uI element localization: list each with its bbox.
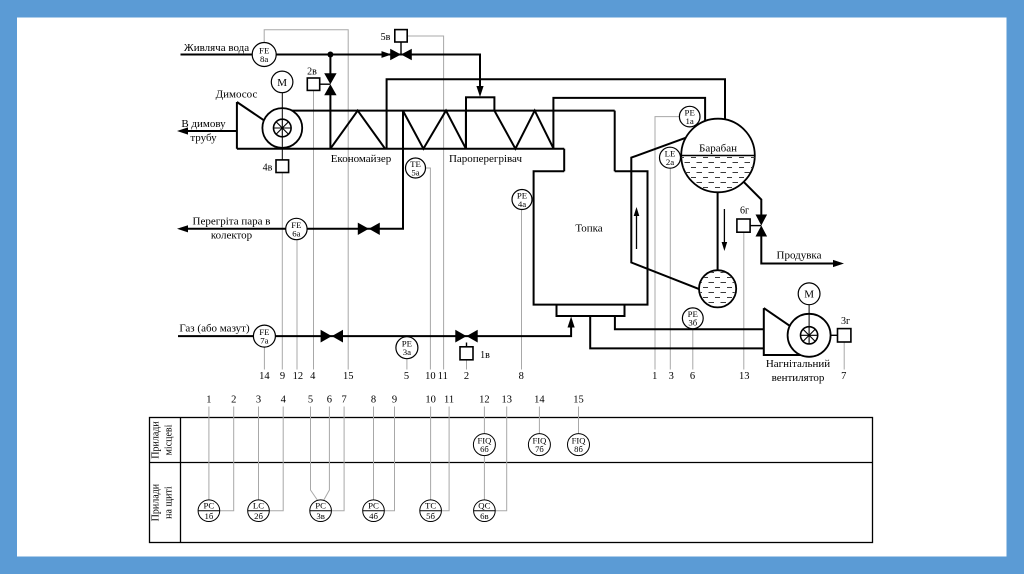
svg-text:13: 13 xyxy=(739,371,750,382)
square 2v xyxy=(307,78,319,90)
svg-text:В димову: В димову xyxy=(181,118,226,130)
svg-text:6: 6 xyxy=(690,371,695,382)
instrument LE 2a xyxy=(660,147,681,168)
svg-text:QC: QC xyxy=(478,501,490,511)
smoke exhauster housing xyxy=(181,102,265,149)
air duct lower xyxy=(590,316,764,348)
instrument FE 6a xyxy=(286,218,307,239)
svg-text:15: 15 xyxy=(573,395,584,406)
svg-text:3г: 3г xyxy=(841,316,850,327)
square 5v xyxy=(395,30,407,42)
table label panel instruments xyxy=(151,483,175,521)
burner box xyxy=(557,305,625,316)
svg-text:8: 8 xyxy=(371,395,376,406)
svg-text:10: 10 xyxy=(425,371,436,382)
square 4v xyxy=(276,160,289,173)
svg-text:Живляча вода: Живляча вода xyxy=(184,42,249,54)
fan motor shaft xyxy=(808,305,810,336)
svg-text:8а: 8а xyxy=(260,54,268,64)
instrument FE 7a xyxy=(253,325,275,347)
svg-text:1в: 1в xyxy=(480,350,490,361)
signal line FE8a to 15 xyxy=(264,30,348,370)
instrument FIQ 7b xyxy=(528,434,550,456)
node number row xyxy=(259,371,846,382)
svg-text:3б: 3б xyxy=(688,318,697,328)
table label local instruments xyxy=(151,421,175,459)
pipe blowdown upper xyxy=(744,182,761,214)
svg-text:1: 1 xyxy=(652,371,657,382)
signal line LE2a to 3 xyxy=(669,168,671,369)
drum water fill xyxy=(681,156,755,193)
superheater coil left xyxy=(403,111,466,149)
signal line 2v square to 4 xyxy=(313,91,315,370)
fan housing xyxy=(764,308,819,355)
instrument PE 3a xyxy=(396,337,418,359)
drum circle xyxy=(681,119,755,193)
motor shaft line xyxy=(281,93,283,160)
fan circle xyxy=(788,314,831,357)
svg-text:Пароперегрівач: Пароперегрівач xyxy=(449,153,523,165)
instrument TE 5a xyxy=(406,158,426,178)
signal line 5v square to 11 xyxy=(408,36,444,370)
svg-text:11: 11 xyxy=(438,371,448,382)
svg-text:4: 4 xyxy=(310,371,316,382)
square 1v xyxy=(460,347,473,360)
arrow to chimney xyxy=(177,127,188,134)
water wall with lower header xyxy=(631,138,699,290)
svg-text:4в: 4в xyxy=(263,162,273,173)
svg-text:2а: 2а xyxy=(666,157,674,167)
svg-text:2б: 2б xyxy=(254,511,263,521)
air duct upper xyxy=(615,316,764,329)
svg-text:5б: 5б xyxy=(426,511,435,521)
attemperator box xyxy=(466,97,494,110)
svg-text:4а: 4а xyxy=(518,199,526,209)
instrument PE 3b xyxy=(682,308,703,329)
pipe feed water branch lower xyxy=(329,95,331,149)
instrument FE 8a xyxy=(252,43,276,67)
signal line PE3b to 6 xyxy=(692,329,694,370)
square 6g xyxy=(737,219,750,232)
svg-text:8: 8 xyxy=(519,371,524,382)
svg-text:PC: PC xyxy=(204,501,215,511)
svg-text:Продувка: Продувка xyxy=(777,250,822,262)
signal line 6g square to 13 xyxy=(743,232,745,369)
pipe superheater outlet xyxy=(181,111,403,229)
motor M of fan xyxy=(798,283,820,305)
pipe blowdown lower xyxy=(761,237,838,264)
svg-text:вентилятор: вентилятор xyxy=(772,372,825,384)
instrument PC 4b xyxy=(363,500,385,522)
svg-text:Перегріта пара в: Перегріта пара в xyxy=(193,216,271,228)
svg-text:13: 13 xyxy=(501,395,512,406)
instrument PE 1a xyxy=(679,106,700,127)
instrument TC 5b xyxy=(420,500,442,522)
svg-text:3: 3 xyxy=(669,371,674,382)
pipe economizer to drum xyxy=(387,79,725,149)
pipe feed water xyxy=(181,55,481,95)
svg-text:2в: 2в xyxy=(307,67,317,78)
svg-text:Прилади: Прилади xyxy=(151,421,162,459)
svg-text:3в: 3в xyxy=(316,511,325,521)
valve 5v xyxy=(390,49,412,61)
svg-text:7: 7 xyxy=(841,371,846,382)
svg-text:6г: 6г xyxy=(740,206,749,217)
instrument LC 2b xyxy=(248,500,270,522)
svg-text:7: 7 xyxy=(341,395,346,406)
signal line PE1a to 1 xyxy=(655,117,680,370)
wire duct bottom xyxy=(237,148,564,150)
svg-text:7б: 7б xyxy=(535,444,544,454)
instrument PE 4a xyxy=(512,190,532,210)
fan outlet xyxy=(831,334,838,336)
svg-text:11: 11 xyxy=(444,395,454,406)
signal line 1v square to 2 xyxy=(466,360,468,370)
svg-text:14: 14 xyxy=(534,395,545,406)
pipe drum to superheater xyxy=(553,98,705,149)
signal line TE5a to 10 xyxy=(426,168,431,370)
arrow into attemperator xyxy=(476,86,483,97)
arrow blowdown xyxy=(833,260,844,267)
stem 1v xyxy=(466,343,468,348)
valve 6g xyxy=(756,215,768,237)
signal line PE3a to 5 xyxy=(406,359,408,370)
svg-text:Топка: Топка xyxy=(575,223,602,235)
arrow to collector xyxy=(177,225,188,232)
signal line FE6a to 12 xyxy=(296,240,298,370)
lower drum xyxy=(699,270,736,307)
svg-text:TC: TC xyxy=(425,501,436,511)
drum water line xyxy=(681,155,755,157)
svg-text:Економайзер: Економайзер xyxy=(331,153,392,165)
instrument FIQ 6b xyxy=(473,434,495,456)
smoke exhauster impeller xyxy=(274,119,292,137)
wire neck left wall xyxy=(563,149,565,172)
table column numbers xyxy=(206,395,583,406)
svg-text:Нагнітальний: Нагнітальний xyxy=(766,358,830,370)
valve 2v xyxy=(324,73,336,95)
pipe feed water branch upper xyxy=(329,55,331,74)
signal line FE7a to 14 xyxy=(263,347,265,369)
svg-text:2: 2 xyxy=(464,371,469,382)
svg-text:5в: 5в xyxy=(381,32,391,43)
table column connector lines xyxy=(209,407,579,511)
attemperator left leg xyxy=(465,111,467,149)
svg-text:14: 14 xyxy=(259,371,270,382)
svg-text:7а: 7а xyxy=(260,336,268,346)
gas valve xyxy=(321,330,343,343)
svg-text:на щиті: на щиті xyxy=(164,486,175,519)
signal line motor/4v to 9 xyxy=(281,173,283,370)
signal line 3g square to 7 xyxy=(843,342,845,369)
svg-text:12: 12 xyxy=(479,395,490,406)
flow arrow on feed water line xyxy=(382,51,392,58)
fan impeller xyxy=(801,327,818,344)
downcomer flow arrow xyxy=(722,209,728,251)
signal line PE4a to 8 xyxy=(521,210,523,370)
svg-text:8б: 8б xyxy=(574,444,583,454)
instrument PC 1b xyxy=(198,500,220,522)
svg-text:12: 12 xyxy=(293,371,304,382)
table label column divider xyxy=(180,418,182,543)
table row divider xyxy=(150,462,873,464)
svg-text:3а: 3а xyxy=(403,347,411,357)
stem 2v xyxy=(320,83,331,85)
svg-text:6в: 6в xyxy=(480,511,489,521)
pipe drum downcomer xyxy=(717,192,719,270)
svg-text:2: 2 xyxy=(231,395,236,406)
svg-text:M: M xyxy=(277,77,287,89)
svg-text:6а: 6а xyxy=(292,228,300,238)
stem 5v xyxy=(400,42,402,55)
svg-text:5: 5 xyxy=(404,371,409,382)
instrument FIQ 8b xyxy=(568,434,590,456)
svg-text:1: 1 xyxy=(206,395,211,406)
svg-text:Прилади: Прилади xyxy=(151,483,162,521)
svg-text:PC: PC xyxy=(315,501,326,511)
valve on steam collector line xyxy=(358,223,380,235)
svg-text:1б: 1б xyxy=(204,511,213,521)
svg-text:Барабан: Барабан xyxy=(699,143,737,155)
svg-text:5: 5 xyxy=(308,395,313,406)
svg-text:4: 4 xyxy=(281,395,287,406)
svg-text:9: 9 xyxy=(280,371,285,382)
svg-text:Газ (або мазут): Газ (або мазут) xyxy=(179,323,250,335)
svg-text:4б: 4б xyxy=(369,511,378,521)
table frame xyxy=(150,418,873,543)
riser flow arrow xyxy=(634,207,640,249)
svg-text:9: 9 xyxy=(392,395,397,406)
svg-text:PC: PC xyxy=(368,501,379,511)
svg-text:колектор: колектор xyxy=(211,230,253,242)
wire duct right wall xyxy=(614,111,616,172)
instrument QC 6v xyxy=(474,500,496,522)
arrow gas to burner xyxy=(568,317,575,328)
svg-text:місцеві: місцеві xyxy=(164,424,175,455)
stem 6g xyxy=(750,225,761,227)
superheater coil right xyxy=(494,111,553,149)
svg-text:6: 6 xyxy=(327,395,332,406)
svg-text:5а: 5а xyxy=(411,167,419,177)
furnace Topka xyxy=(534,171,648,304)
motor M of exhauster xyxy=(271,71,293,93)
pipe gas xyxy=(178,320,571,336)
svg-text:LC: LC xyxy=(253,501,264,511)
svg-text:10: 10 xyxy=(425,395,436,406)
wire duct top xyxy=(292,110,615,112)
svg-text:3: 3 xyxy=(256,395,261,406)
svg-text:M: M xyxy=(804,289,814,301)
svg-text:1а: 1а xyxy=(686,116,694,126)
svg-text:6б: 6б xyxy=(480,444,489,454)
economizer coil xyxy=(330,111,385,149)
svg-text:15: 15 xyxy=(343,371,354,382)
svg-text:Димосос: Димосос xyxy=(216,89,258,101)
junction node xyxy=(327,52,333,58)
smoke exhauster fan circle xyxy=(262,108,302,148)
svg-text:трубу: трубу xyxy=(190,132,217,144)
valve 1v xyxy=(455,330,477,343)
square 3g xyxy=(838,329,851,342)
instrument PC 3v xyxy=(310,500,332,522)
